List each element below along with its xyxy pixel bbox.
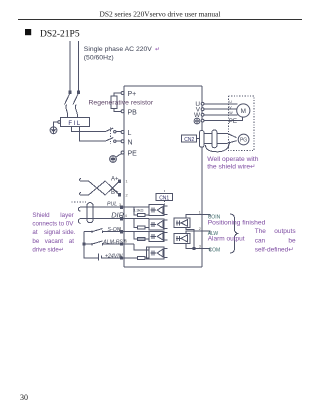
svg-text:PUL: PUL [107,201,117,207]
svg-text:drive side↵: drive side↵ [32,247,64,254]
svg-text:L: L [128,130,132,137]
svg-text:connects to 0V: connects to 0V [32,221,74,228]
svg-text:PE: PE [128,151,138,158]
svg-text:P+: P+ [128,91,137,98]
svg-text:A+: A+ [111,177,119,183]
svg-text:U: U [229,100,232,104]
svg-text:Regenerative resistor: Regenerative resistor [89,100,154,107]
svg-text:W: W [229,111,233,115]
svg-text:FIL: FIL [68,121,81,127]
svg-text:Well operate with: Well operate with [207,156,258,163]
svg-text:COM: COM [209,248,221,254]
svg-text:Shield: Shield [32,212,50,219]
svg-text:↵: ↵ [155,47,160,53]
svg-text:5: 5 [119,227,121,231]
svg-text:can: can [255,238,266,245]
svg-text:The: The [255,228,267,235]
svg-text:DS2 series 220Vservo drive use: DS2 series 220Vservo drive user manual [100,9,221,18]
svg-text:2: 2 [199,227,201,231]
svg-text:1: 1 [119,254,121,258]
svg-text:Single phase AC 220V: Single phase AC 220V [84,46,152,53]
svg-text:Alarm output: Alarm output [208,235,245,242]
svg-text:6: 6 [125,240,127,244]
svg-text:be: be [32,238,39,245]
svg-text:3.3kΩ: 3.3kΩ [133,208,144,213]
svg-text:DS2-21P5: DS2-21P5 [40,29,80,39]
svg-text:N: N [128,139,133,146]
svg-text:signal: signal [44,229,60,236]
svg-text:at: at [69,238,74,245]
svg-text:layer: layer [60,212,73,219]
svg-text:Positioning finished: Positioning finished [208,219,266,226]
svg-text:30: 30 [20,393,28,402]
svg-text:M: M [241,108,246,115]
svg-text:ALM-RST: ALM-RST [102,239,127,245]
svg-text:side.: side. [62,229,75,236]
svg-text:B+: B+ [111,190,119,196]
svg-text:4: 4 [125,214,127,218]
svg-text:be: be [288,238,296,245]
svg-text:1: 1 [126,179,128,183]
svg-text:at: at [32,229,37,236]
svg-text:CN2: CN2 [184,137,194,143]
svg-text:PG: PG [240,138,247,144]
svg-text:2: 2 [126,193,128,197]
svg-text:(50/60Hz): (50/60Hz) [84,54,114,61]
svg-text:outputs: outputs [274,228,296,235]
svg-text:W: W [194,112,201,119]
svg-text:vacant: vacant [45,238,64,245]
svg-text:PB: PB [128,109,138,116]
svg-text:CN1: CN1 [159,195,169,201]
svg-text:the shield wire↵: the shield wire↵ [207,164,255,171]
svg-text:3: 3 [199,245,201,249]
svg-text:DIR: DIR [111,210,124,219]
svg-text:3: 3 [119,203,121,207]
svg-text:self-defined↵: self-defined↵ [255,247,294,254]
svg-text:1: 1 [199,210,201,214]
svg-text:PE: PE [229,118,237,125]
